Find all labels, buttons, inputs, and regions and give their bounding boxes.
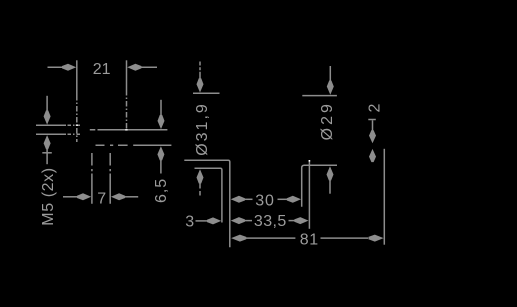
dimension 3 arrowhead	[207, 217, 221, 224]
diameter 29 top leader wire	[329, 66, 331, 83]
diameter 29 bottom extension line with corner into 30 right extension	[302, 165, 337, 207]
svg-text:Ø31,9: Ø31,9	[194, 102, 211, 156]
dimension 30 right tail wire	[278, 198, 289, 200]
svg-text:81: 81	[300, 231, 319, 248]
M5 stud top line y=125.2	[36, 124, 66, 126]
axis line A y=129.8	[90, 129, 168, 131]
diameter 31,9 bottom extension line with corner to V1	[195, 168, 222, 222]
diameter 31,9 bottom leader wire	[199, 182, 201, 196]
axis line B y=145.3 dash-dot	[96, 144, 172, 146]
dimension 3 tail wire	[196, 220, 210, 222]
diameter 31,9 top extension line	[193, 92, 220, 94]
dimension 30 left tail wire	[244, 198, 253, 200]
extension line x=91.9 dash-dot	[91, 153, 93, 204]
dimension 21 left tail wire	[48, 66, 65, 68]
svg-text:7: 7	[97, 191, 106, 208]
dimension 81 right extension line x=384.3	[383, 149, 385, 245]
diameter 31,9 bottom arrowhead	[197, 169, 204, 183]
M5 arrow-up leader wire	[46, 148, 48, 164]
extension centerline left x=76.8	[76, 60, 78, 95]
dimension 33,5 right tail wire	[289, 220, 296, 222]
svg-text:2: 2	[367, 103, 384, 112]
dimension 33,5 left tail wire	[244, 220, 252, 222]
svg-text:3: 3	[185, 213, 194, 230]
dimension 30 right arrowhead	[287, 196, 301, 203]
M5 stud bottom line y=134.3	[36, 133, 66, 135]
dimension 33,5 left arrowhead	[231, 217, 245, 224]
diameter 31,9 top arrowhead	[197, 78, 204, 92]
dimension 81 left tail wire	[246, 237, 296, 239]
svg-text:6,5: 6,5	[153, 178, 170, 203]
dimension 7 right arrowhead	[111, 193, 125, 200]
dimension 2 upper leader wire	[372, 120, 374, 131]
diameter 29 bottom arrowhead	[327, 166, 334, 180]
svg-text:21: 21	[93, 61, 111, 78]
dimension 7 left arrowhead	[77, 193, 91, 200]
dimension 2 leader tick	[368, 119, 376, 121]
bright overlap node on stud top line	[76, 124, 78, 126]
dimension 7 left tail wire	[63, 196, 79, 198]
diameter 29 top extension line	[302, 95, 337, 97]
dimension 81 right arrowhead	[368, 235, 383, 242]
extension line x=110.2 dash-dot	[109, 153, 111, 204]
dimension 21 left arrowhead	[62, 64, 76, 71]
M5 down arrowhead	[44, 110, 51, 124]
diameter 29 top arrowhead	[327, 81, 334, 95]
svg-text:33,5: 33,5	[254, 213, 287, 230]
M5 up arrowhead	[44, 135, 51, 149]
dimension 6,5 top arrow wire	[160, 100, 162, 115]
svg-text:30: 30	[255, 192, 274, 209]
bright overlap node on axis A at x=126.4	[125, 129, 127, 131]
dimension 2 down arrowhead	[369, 130, 376, 143]
dimension 33,5 right extension line x=309.4	[308, 160, 310, 228]
dimension 2 up arrowhead	[369, 149, 376, 162]
diameter 31,9 top leader wire	[199, 62, 201, 80]
dimension 33,5 right arrowhead	[294, 217, 308, 224]
dimension 81 right tail wire	[321, 237, 369, 239]
extension centerline right x=126.5	[126, 60, 128, 90]
dimension 21 right tail wire	[140, 66, 158, 68]
dimension 6,5 bottom arrowhead	[157, 146, 164, 160]
svg-text:M5 (2x): M5 (2x)	[40, 167, 57, 225]
dimension 30 left arrowhead	[231, 196, 245, 203]
dimension 6,5 bottom arrow wire	[160, 160, 162, 174]
svg-text:Ø29: Ø29	[319, 101, 336, 140]
dimension 7 right tail wire	[124, 196, 138, 198]
dimension 21 right arrowhead	[127, 64, 141, 71]
dimension 81 left arrowhead	[231, 235, 246, 242]
bright node top of 33,5 extension	[308, 160, 310, 162]
diameter 29 bottom leader tail wire	[329, 179, 331, 194]
dimension 6,5 top arrowhead	[158, 115, 165, 129]
step line y=160.2 with corner into V2 extension	[184, 160, 230, 247]
M5 leader tick	[42, 152, 52, 154]
M5 arrow-down leader wire	[46, 96, 48, 111]
